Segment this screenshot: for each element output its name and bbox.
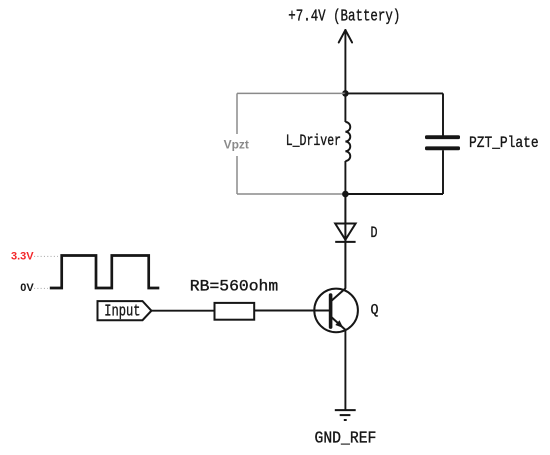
transistor Q (NPN): [314, 288, 358, 332]
wire emitter to ground: [344, 330, 346, 410]
svg-text:PZT_Plate: PZT_Plate: [469, 134, 539, 152]
dotted reference line high: [34, 255, 58, 257]
capacitor C PZT plate: [425, 135, 460, 150]
base wire from resistor to transistor: [254, 310, 330, 312]
diode D: [335, 194, 355, 289]
input net flag: [98, 301, 152, 320]
power arrow symbol: [339, 30, 352, 93]
svg-text:L_Driver: L_Driver: [286, 132, 341, 150]
svg-text:Vpzt: Vpzt: [224, 137, 249, 151]
label Input: [104, 303, 140, 322]
label Vpzt: [224, 137, 249, 151]
svg-text:0V: 0V: [20, 282, 34, 294]
dotted reference line low: [34, 287, 48, 289]
label PZT_Plate: [469, 134, 539, 152]
svg-text:3.3V: 3.3V: [11, 250, 34, 262]
inductor L_Driver: [345, 93, 350, 194]
ground symbol GND_REF: [335, 410, 356, 420]
svg-text:Input: Input: [104, 303, 140, 322]
net label +7.4V (Battery): [288, 7, 400, 26]
Vpzt gray measurement box: [237, 93, 345, 194]
wire top right to capacitor: [345, 93, 443, 135]
label RB=560ohm: [190, 278, 278, 296]
annotation label 0V: [20, 282, 34, 294]
annotation label 3.3V: [11, 250, 34, 262]
label D: [371, 224, 378, 242]
junction node top: [342, 90, 349, 97]
label GND_REF: [315, 428, 377, 447]
svg-text:D: D: [371, 224, 378, 242]
junction node bottom: [342, 191, 349, 198]
resistor RB: [215, 303, 255, 320]
svg-text:+7.4V (Battery): +7.4V (Battery): [288, 7, 400, 26]
square wave waveform: [50, 256, 160, 289]
wire input flag to resistor: [151, 310, 214, 312]
svg-text:RB=560ohm: RB=560ohm: [190, 278, 278, 296]
label Q: [371, 302, 379, 319]
wire capacitor bottom: [345, 150, 443, 194]
svg-text:GND_REF: GND_REF: [315, 428, 377, 447]
label L_Driver: [286, 132, 341, 150]
svg-text:Q: Q: [371, 302, 379, 319]
